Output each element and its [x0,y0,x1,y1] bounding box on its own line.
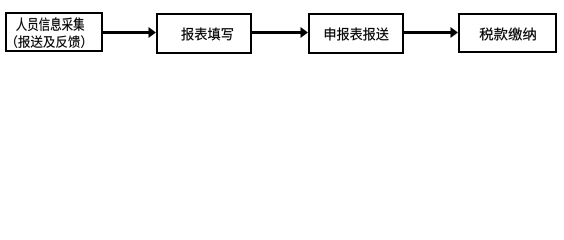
arrow 2 connector [252,27,308,38]
box step2 报表填写 [157,14,251,53]
text 人员信息采集 line1 [16,17,84,31]
box step1 人员信息采集（报送及反馈） [6,13,102,51]
text 税款缴纳 [480,27,536,40]
text （报送及反馈） line2 [14,35,84,48]
text 申报表报送 [325,27,389,40]
box step3 申报表报送 [309,14,403,53]
arrow 1 connector [103,27,156,38]
arrow 3 connector [404,27,458,38]
box step4 税款缴纳 [459,14,556,52]
text 报表填写 [181,27,233,40]
